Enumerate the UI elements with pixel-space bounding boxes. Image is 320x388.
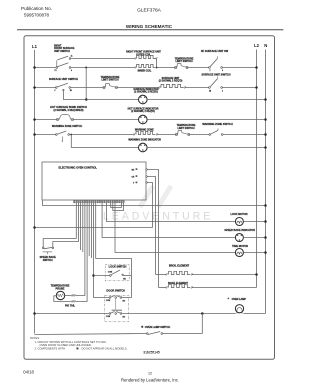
resistor R5 broil element xyxy=(169,271,190,274)
switch S6 surface unit (right) xyxy=(209,87,211,89)
junction timer motor at N xyxy=(264,251,267,254)
switch S13 door switch upper contacts xyxy=(109,297,111,299)
wire harness pin3 to speed bake switch right xyxy=(53,203,79,247)
wire pin20 to timer motor rail xyxy=(115,203,235,253)
thermal switch S7 hot surface bond xyxy=(57,119,59,121)
svg-text:INNER COIL: INNER COIL xyxy=(138,69,152,72)
wire L1 to hot surface bond switch xyxy=(35,119,58,121)
junction L1 row E xyxy=(33,133,36,136)
junction L1 row A xyxy=(33,66,36,69)
wire ladder stub to door switch NO xyxy=(122,297,132,299)
switch S10 warning zone (right) xyxy=(209,134,211,136)
wire warning zone switch to element xyxy=(70,134,134,136)
junction row C at N xyxy=(264,98,267,101)
wire row E to N xyxy=(223,134,266,136)
svg-text:DOOR SWITCH: DOOR SWITCH xyxy=(106,288,125,292)
wire limit switch to surface unit element xyxy=(117,87,158,89)
svg-text:OVEN LAMP: OVEN LAMP xyxy=(232,298,247,301)
connector probe lower xyxy=(71,301,72,302)
svg-text:5995700878: 5995700878 xyxy=(24,12,50,17)
junction N rail top xyxy=(264,204,267,207)
junction L1 row D xyxy=(33,118,36,121)
wire L1 supply vertical xyxy=(34,50,36,334)
watermark logo slashes xyxy=(140,186,153,207)
wire L2 supply vertical xyxy=(256,50,258,288)
connector warning element left xyxy=(133,134,134,135)
switch S3 RF surface unit xyxy=(209,67,211,69)
wire outer coil drop to row A xyxy=(156,59,158,68)
svg-text:ELECTRONIC OVEN CONTROL: ELECTRONIC OVEN CONTROL xyxy=(59,166,98,170)
svg-text:OVEN LAMP SWITCH: OVEN LAMP SWITCH xyxy=(145,326,171,329)
connector probe upper xyxy=(71,295,72,296)
wire S1 upper pole to outer coil xyxy=(71,58,135,60)
svg-text:OVEN DOOR CLOSED AND UNLOCKED.: OVEN DOOR CLOSED AND UNLOCKED. xyxy=(40,343,92,347)
wire EOC left drop to N rail xyxy=(43,200,266,205)
wire probe lower loop xyxy=(54,296,71,302)
wire limit switch to warning zone switch right xyxy=(190,134,209,136)
junction speed bake at N xyxy=(264,236,267,239)
connector outer coil left xyxy=(135,58,136,59)
thermal switch S9 temperature limit row E xyxy=(176,134,178,136)
wire harness pin6 to probe upper xyxy=(75,203,85,296)
svg-text:LIMIT SWITCH: LIMIT SWITCH xyxy=(101,79,118,82)
wire ladder stub to lock switch NO xyxy=(123,275,131,277)
connector bake left xyxy=(166,287,167,288)
junction coils join xyxy=(156,67,158,69)
svg-text:DO NOT APPEAR ON ALL MODELS.: DO NOT APPEAR ON ALL MODELS. xyxy=(82,347,128,351)
svg-text:12: 12 xyxy=(148,371,152,375)
switch S4 surface unit (left) xyxy=(55,87,57,89)
wire pin jumper loop 1 xyxy=(111,203,122,208)
svg-text:WARNING ZONE SWITCH: WARNING ZONE SWITCH xyxy=(202,123,232,126)
door switch mechanical link xyxy=(115,299,117,309)
wire harness pin9 to lock and door switch xyxy=(94,203,110,298)
connector outer coil right xyxy=(156,58,157,59)
connector broil right xyxy=(191,274,192,275)
wire row B to L2 xyxy=(222,87,256,89)
svg-text:SURFACE UNIT SWITCH: SURFACE UNIT SWITCH xyxy=(201,74,230,77)
EOC bottom pin connector strip xyxy=(74,200,75,203)
header underline rule xyxy=(17,29,283,31)
svg-text:SWITCH: SWITCH xyxy=(43,259,53,262)
wire harness pin9b xyxy=(90,203,92,258)
indicator lamp DS1 surface indicator xyxy=(139,95,148,104)
wire element to surface unit switch right xyxy=(185,87,208,89)
svg-text:Rendered by LeadVenture, Inc.: Rendered by LeadVenture, Inc. xyxy=(121,377,179,382)
svg-text:GLEF378A: GLEF378A xyxy=(137,8,162,14)
label oven lamp switch xyxy=(141,326,143,328)
svg-text:SPEED BAKE INDICATOR: SPEED BAKE INDICATOR xyxy=(224,229,255,232)
svg-text:RF SURFACE UNIT SW: RF SURFACE UNIT SW xyxy=(201,50,229,53)
wire lock motor to N xyxy=(243,221,265,223)
svg-text:04/18: 04/18 xyxy=(23,370,34,375)
svg-text:SURFACE UNIT SWITCH: SURFACE UNIT SWITCH xyxy=(49,78,78,81)
wire pin16 to lock motor rail xyxy=(106,203,235,222)
wire S4 to temperature limit switch row B xyxy=(71,87,104,89)
svg-text:NOTES:: NOTES: xyxy=(30,336,40,340)
lamp DS5 oven lamp xyxy=(235,305,243,313)
wire coils to temperature limit switch xyxy=(157,67,175,69)
wire L1 to surface unit switch S1 xyxy=(35,67,57,69)
svg-text:WARNING ZONE INDICATOR: WARNING ZONE INDICATOR xyxy=(128,138,161,141)
svg-text:L2: L2 xyxy=(254,43,260,48)
wire L1 to warning zone switch xyxy=(35,134,56,136)
junction row F at N xyxy=(264,146,267,149)
svg-text:WIRING SCHEMATIC: WIRING SCHEMATIC xyxy=(126,24,173,29)
wire hot surface indicator to N xyxy=(147,119,265,121)
svg-text:LOCK MOTOR: LOCK MOTOR xyxy=(230,213,247,216)
svg-text:PIG TAIL: PIG TAIL xyxy=(65,304,75,307)
svg-text:(2 SHOWN, 2 REQ'D): (2 SHOWN, 2 REQ'D) xyxy=(134,91,158,94)
resistor R1 outer coil xyxy=(137,55,156,58)
wire EOC BK to bake feed xyxy=(147,170,158,288)
wire to surface indicator lamp xyxy=(86,99,138,101)
resistor R4 warning zone element xyxy=(136,131,155,134)
svg-text:P1: P1 xyxy=(55,70,57,72)
resistor R2 inner coil xyxy=(137,64,156,67)
wire EOC OR to broil feed xyxy=(147,177,155,275)
thermal switch S2 temperature limit row A xyxy=(175,67,177,69)
switch S1 right front surface unit (DPST) xyxy=(56,67,58,69)
svg-text:PROBE: PROBE xyxy=(56,287,65,290)
resistor R3 surface unit element xyxy=(161,84,183,87)
wire branch down to warning zone indicator xyxy=(71,135,138,148)
motor M1 lock motor xyxy=(235,218,243,226)
svg-text:COM: COM xyxy=(106,300,111,302)
wire warning element to limit switch xyxy=(157,134,175,136)
svg-text:316255145: 316255145 xyxy=(143,350,160,354)
svg-text:TIME MOTOR: TIME MOTOR xyxy=(232,245,248,248)
svg-text:COM: COM xyxy=(106,316,111,318)
wire oven lamp switch loop xyxy=(163,314,202,334)
svg-text:2. COMPONENTS WITH: 2. COMPONENTS WITH xyxy=(35,347,66,351)
wire timer motor to N xyxy=(243,252,265,254)
junction row A at L2 xyxy=(255,66,258,69)
connector bake right xyxy=(191,287,192,288)
electronic oven control U1 box xyxy=(42,162,146,200)
svg-text:WARNING ZONE SWITCH: WARNING ZONE SWITCH xyxy=(52,125,82,128)
wire L1 rail to EOC link xyxy=(35,227,153,229)
wire S1 lower pole to inner coil xyxy=(71,67,135,69)
wire harness pin2 to speed bake switch left xyxy=(43,203,76,247)
wire broil element to L2 xyxy=(192,274,256,276)
connector surface element right xyxy=(184,87,185,88)
svg-text:LIMIT SWITCH: LIMIT SWITCH xyxy=(177,127,194,130)
wire limit switch to RF surface unit sw xyxy=(188,67,209,69)
svg-text:2: 2 xyxy=(210,70,211,72)
wire drop row A to surface indicator rail xyxy=(85,68,87,100)
wire harness pin4 xyxy=(80,203,82,250)
wire bake element to L2 xyxy=(192,287,256,289)
junction row A drop to indicator rail xyxy=(85,67,87,69)
wire harness pin5 xyxy=(82,203,84,252)
wire harness pin11 to lock/door ladder xyxy=(96,203,132,298)
resistor R6 bake element xyxy=(169,284,190,287)
svg-text:WARNING ZONE: WARNING ZONE xyxy=(135,128,154,131)
lock switch S12 enclosure xyxy=(105,265,129,281)
thermal switch S5 temperature limit row B xyxy=(103,87,105,89)
connector surface element left xyxy=(159,87,160,88)
connector inner coil left xyxy=(135,67,136,68)
junction row B at L2 xyxy=(255,86,258,89)
svg-text:COM: COM xyxy=(108,271,113,273)
connector broil left xyxy=(166,274,167,275)
svg-text:LOCK SWITCH: LOCK SWITCH xyxy=(109,265,127,268)
junction lock motor at N xyxy=(264,220,267,223)
wire L1 to door switch xyxy=(35,313,110,315)
wire lock switch COM feed xyxy=(94,275,110,277)
junction warning zone branch xyxy=(70,134,72,136)
junction row E at N xyxy=(264,133,267,136)
indicator lamp DS3 warning zone indicator xyxy=(139,143,148,152)
svg-text:UNIT SWITCH: UNIT SWITCH xyxy=(54,50,70,53)
junction lock switch feed xyxy=(92,274,95,277)
junction L1 row B xyxy=(33,86,36,89)
wire harness pin7 to probe lower xyxy=(75,203,87,302)
svg-text:(2 SHOWN, 4 REQUIRED): (2 SHOWN, 4 REQUIRED) xyxy=(53,109,83,112)
wire bond switch to hot surface indicator xyxy=(74,119,139,121)
junction oven lamp switch tap xyxy=(201,312,204,315)
junction L1 rail xyxy=(33,226,36,229)
svg-text:LIMIT SWITCH: LIMIT SWITCH xyxy=(175,60,192,63)
door switch S13 enclosure xyxy=(105,296,129,322)
wire L1 to oven lamp switch xyxy=(35,334,147,335)
wire door switch to oven lamp xyxy=(122,313,236,315)
schematic border frame xyxy=(24,36,275,360)
switch S8 warning zone (left) xyxy=(55,134,57,136)
wire row A to L2 xyxy=(222,67,256,69)
svg-text:3: 3 xyxy=(222,90,223,92)
indicator lamp DS2 hot surface indicator xyxy=(139,115,148,124)
wire pin jumper loop 2 xyxy=(113,203,124,211)
wire N supply vertical xyxy=(265,50,267,314)
wire EOC V to L1 link xyxy=(147,183,152,228)
wire pin14 to speed bake indicator rail xyxy=(102,203,235,238)
switch S11 speed bake xyxy=(42,247,44,249)
junction L1 bottom rail xyxy=(33,312,36,315)
svg-text:Publication No.: Publication No. xyxy=(21,6,52,11)
sensor RT1 temperature probe xyxy=(56,291,64,299)
wire S4 tap down to indicator rail xyxy=(63,91,86,100)
wire oven lamp to N xyxy=(243,313,265,315)
svg-text:(2 SHOWN, 2 REQ'D): (2 SHOWN, 2 REQ'D) xyxy=(159,80,183,83)
switch S12 lock switch contacts xyxy=(110,275,112,277)
wire speed bake indicator to N xyxy=(243,237,265,239)
svg-text:N: N xyxy=(264,43,267,48)
junction broil at L2 xyxy=(255,273,258,276)
svg-text:(2 SHOWN, 2 REQ'D): (2 SHOWN, 2 REQ'D) xyxy=(131,110,155,113)
junction row D at N xyxy=(264,118,267,121)
motor M2 timer motor xyxy=(235,249,243,257)
wire L1 to surface unit switch S4 xyxy=(35,87,56,89)
junction indicator rail xyxy=(85,98,88,101)
wire probe upper lead xyxy=(65,295,71,297)
svg-text:L1: L1 xyxy=(32,44,38,49)
connector warning element right xyxy=(156,134,157,135)
wire warning indicator to N xyxy=(147,147,265,149)
svg-text:BROIL ELEMENT: BROIL ELEMENT xyxy=(169,265,190,268)
switch S13 door switch lower contacts xyxy=(109,313,111,315)
wire surface indicator to N xyxy=(147,99,265,101)
indicator lamp DS4 speed bake xyxy=(235,234,243,242)
switch S14 oven lamp switch xyxy=(161,333,163,335)
svg-text:*: * xyxy=(228,297,230,302)
wire harness pin8 xyxy=(88,203,90,256)
